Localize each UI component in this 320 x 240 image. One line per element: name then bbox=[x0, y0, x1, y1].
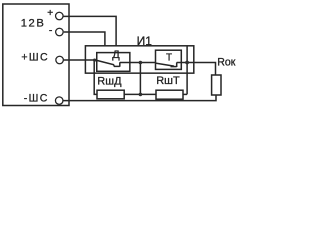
svg-text:RшД: RшД bbox=[97, 75, 122, 87]
svg-text:Д: Д bbox=[112, 49, 120, 61]
svg-text:-ШС: -ШС bbox=[24, 93, 49, 105]
svg-text:12В: 12В bbox=[21, 18, 46, 30]
svg-text:RшТ: RшТ bbox=[156, 75, 180, 87]
svg-text:Т: Т bbox=[166, 53, 172, 64]
svg-text:+ШС: +ШС bbox=[21, 52, 49, 64]
svg-text:Rок: Rок bbox=[217, 57, 236, 69]
svg-text:-: - bbox=[49, 25, 53, 37]
svg-text:И1: И1 bbox=[137, 34, 153, 48]
svg-text:+: + bbox=[47, 7, 53, 19]
